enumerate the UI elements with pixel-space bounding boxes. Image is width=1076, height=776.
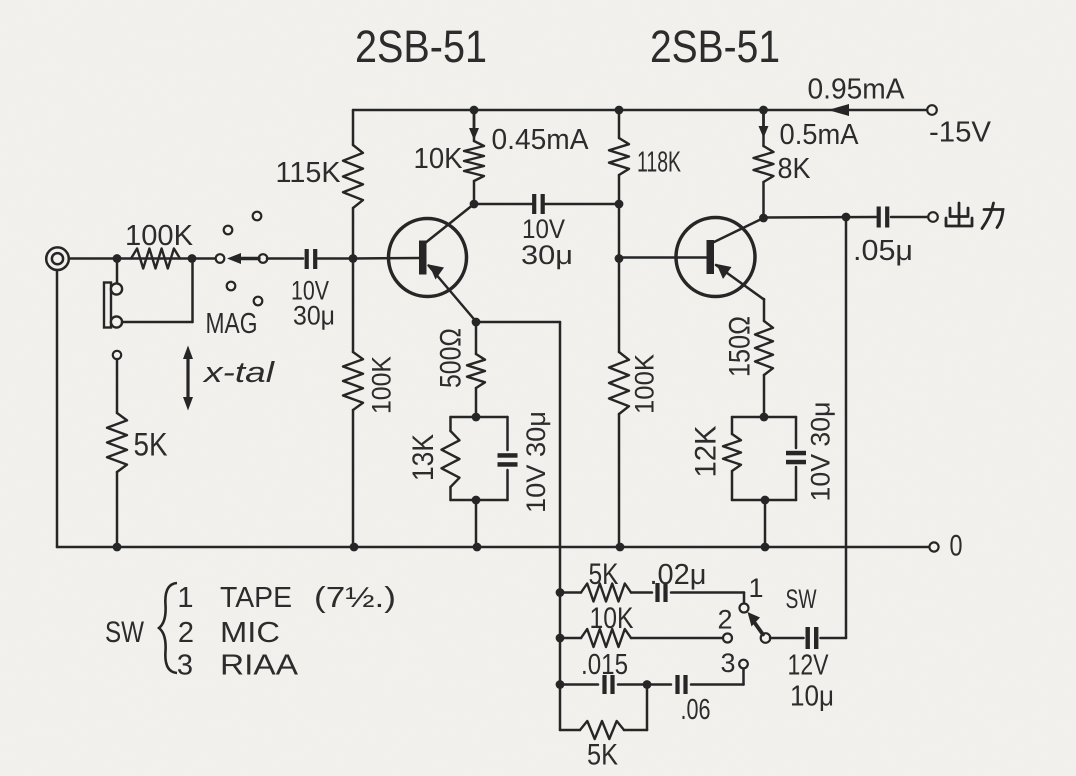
junction Q1 collector node bbox=[470, 200, 479, 209]
junction Q2 collector node bbox=[759, 214, 768, 223]
label transistor type 2SB-51 (stage 2) bbox=[650, 21, 780, 72]
capacitor 12V 10μ bbox=[806, 627, 819, 649]
junction ground rail / 100K stage 1 bbox=[350, 543, 359, 552]
label legend row 3 RIAA bbox=[177, 650, 299, 682]
wire top rail to 118K bbox=[618, 110, 621, 138]
junction ground rail / RC2 bbox=[761, 543, 770, 552]
svg-text:TAPE: TAPE bbox=[220, 582, 292, 614]
svg-text:SW: SW bbox=[786, 584, 817, 614]
wire top rail to 8K bbox=[762, 110, 765, 146]
wire output capacitor to terminal bbox=[891, 216, 928, 219]
capacitor output .05μ bbox=[877, 207, 890, 228]
svg-text:3: 3 bbox=[720, 648, 735, 678]
junction ground rail / 5K bbox=[113, 543, 122, 552]
svg-text:0: 0 bbox=[950, 530, 963, 563]
label 0.5mA bbox=[780, 119, 860, 151]
svg-text:-15V: -15V bbox=[929, 117, 992, 149]
svg-text:2SB-51: 2SB-51 bbox=[650, 21, 780, 72]
label .015 bbox=[581, 649, 628, 681]
label 100K (stage 2 bias) bbox=[629, 354, 659, 414]
wire top rail to 10K bbox=[473, 110, 476, 141]
svg-text:(7½.): (7½.) bbox=[314, 582, 396, 614]
label 5K (row 1) bbox=[589, 558, 619, 591]
junction RC2 top node bbox=[760, 413, 769, 422]
wire RC1 bottom edge bbox=[451, 499, 508, 502]
svg-text:100K: 100K bbox=[629, 354, 659, 414]
resistor 5K (bypass) bbox=[580, 721, 624, 739]
svg-text:0.5mA: 0.5mA bbox=[780, 119, 860, 151]
svg-text:5K: 5K bbox=[587, 739, 618, 772]
svg-text:.015: .015 bbox=[581, 649, 628, 681]
wire RC2 top edge bbox=[732, 416, 796, 419]
junction row 3 middle bbox=[643, 680, 652, 689]
wire feedback vertical line bbox=[559, 322, 562, 730]
switch contact (selector, on line left) bbox=[216, 254, 225, 263]
resistor 150Ω bbox=[755, 321, 773, 375]
resistor 12K bbox=[723, 417, 741, 500]
wire 100K to ground rail bbox=[618, 414, 621, 547]
label legend row 2 MIC bbox=[178, 617, 280, 649]
svg-text:100K: 100K bbox=[125, 220, 194, 252]
current arrow 0.5mA bbox=[759, 112, 769, 138]
label 12K bbox=[690, 426, 723, 478]
wire 100K stage 1 to ground rail bbox=[352, 410, 355, 547]
label 100K (input) bbox=[125, 220, 194, 252]
switch contact (selector, upper near) bbox=[224, 226, 233, 235]
capacitor .02μ bbox=[655, 583, 667, 602]
wire input capacitor to Q1 base bbox=[318, 257, 353, 260]
label x-tal bbox=[201, 357, 276, 389]
junction Q2 base node bbox=[615, 254, 624, 263]
resistor 8K bbox=[754, 146, 774, 182]
wire row1 middle bbox=[631, 591, 652, 594]
svg-text:118K: 118K bbox=[637, 147, 681, 179]
switch contact 2 bbox=[723, 634, 732, 643]
wire Q1 base bbox=[353, 257, 420, 260]
label 100K (stage 1 bias) bbox=[366, 356, 396, 414]
svg-text:30μ: 30μ bbox=[521, 240, 573, 270]
wire RC1 to ground rail bbox=[475, 500, 478, 547]
wire 150Ω to RC2 bbox=[763, 375, 766, 417]
wire 5K to ground rail bbox=[116, 472, 119, 547]
svg-text:1: 1 bbox=[177, 582, 193, 614]
junction output node bbox=[842, 213, 851, 222]
label 10K (row 2) bbox=[590, 602, 634, 635]
wire bypass bottom right bbox=[624, 729, 647, 732]
label 10V 30μ (RC1 cap) bbox=[521, 411, 551, 513]
resistor 5K (row 1) bbox=[581, 584, 631, 602]
capacitor interstage coupling 10V 30u bbox=[532, 194, 545, 214]
wire Q2 base bbox=[619, 256, 708, 259]
label 13K bbox=[407, 434, 440, 481]
wire cartridge to 100K right bbox=[122, 259, 193, 323]
label 5K (bypass) bbox=[587, 739, 618, 772]
label 12V bbox=[788, 650, 830, 682]
resistor 5K (input load) bbox=[107, 413, 127, 472]
svg-text:1: 1 bbox=[748, 573, 763, 603]
current arrow 0.95mA on supply rail bbox=[828, 104, 849, 116]
junction Q1 emitter node bbox=[472, 318, 481, 327]
wire coupling capacitor to 118K tap bbox=[545, 203, 619, 206]
label 出力 (output) bbox=[946, 203, 1003, 229]
svg-text:RIAA: RIAA bbox=[220, 650, 299, 682]
capacitor input coupling 10V 30μ bbox=[305, 249, 318, 269]
svg-text:2SB-51: 2SB-51 bbox=[355, 21, 487, 72]
svg-text:5K: 5K bbox=[134, 427, 168, 463]
svg-text:2: 2 bbox=[178, 617, 194, 649]
label -15V bbox=[929, 117, 992, 149]
label 115K bbox=[276, 157, 342, 189]
resistor 10K (row 2) bbox=[581, 629, 631, 647]
junction ground rail / RC1 bbox=[473, 543, 482, 552]
svg-text:MIC: MIC bbox=[220, 617, 280, 649]
label SW (legend) bbox=[105, 616, 145, 649]
switch contact x-tal (5K branch) bbox=[113, 351, 121, 359]
resistor 115K bbox=[343, 145, 363, 208]
wire row1 to contact 1 bbox=[671, 593, 744, 604]
capacitor .06 bbox=[675, 675, 687, 694]
label 118K bbox=[637, 147, 681, 179]
wire Q1 base node to 100K bbox=[352, 259, 355, 353]
arrow MAG/x-tal toggle bbox=[183, 346, 193, 411]
junction RC1 top node bbox=[472, 413, 481, 422]
svg-text:8K: 8K bbox=[778, 153, 812, 185]
label .06 bbox=[681, 694, 711, 726]
transistor Q1 2SB-51 bbox=[389, 204, 477, 322]
wire Q1 collector to coupling capacitor bbox=[474, 203, 532, 206]
junction RC1 bottom node bbox=[472, 496, 481, 505]
label 30μ (input cap) bbox=[293, 300, 335, 330]
junction RC2 bottom node bbox=[761, 496, 770, 505]
wire row2 to contact 2 bbox=[631, 637, 723, 640]
wire tap node to Q2 base node bbox=[618, 204, 621, 259]
wire 118K to tap node bbox=[618, 175, 621, 204]
label 0 bbox=[950, 530, 963, 563]
pickup cartridge MAG symbol bbox=[104, 283, 122, 328]
wire 115K to Q1 base node bbox=[352, 208, 355, 259]
svg-text:.02μ: .02μ bbox=[650, 559, 707, 591]
wire .015 to row3 junction bbox=[618, 683, 647, 686]
junction feedback / row 2 bbox=[556, 634, 565, 643]
svg-text:10V 30μ: 10V 30μ bbox=[805, 402, 835, 502]
svg-text:500Ω: 500Ω bbox=[435, 328, 468, 388]
junction Q1 base node bbox=[349, 254, 358, 263]
svg-text:10μ: 10μ bbox=[790, 681, 834, 713]
wire 10K to Q1 collector node bbox=[473, 181, 476, 204]
wire row2 left bbox=[560, 637, 581, 640]
terminal output bbox=[928, 212, 938, 222]
wire top rail to 115K bbox=[352, 110, 355, 145]
wire selector to input capacitor bbox=[267, 257, 303, 260]
junction top rail / 8K bbox=[759, 106, 768, 115]
terminal input jack bbox=[46, 247, 69, 270]
junction ground rail / 100K stage 2 bbox=[616, 543, 625, 552]
svg-text:2: 2 bbox=[717, 605, 732, 635]
label transistor type 2SB-51 (stage 1) bbox=[355, 21, 487, 72]
switch contact (selector, on line right) bbox=[259, 254, 268, 263]
wire output node down to SW capacitor bbox=[845, 217, 848, 638]
resistor 100K (stage 1 bias) bbox=[343, 352, 363, 410]
label .02μ bbox=[650, 559, 707, 591]
capacitor 13K bypass 10V 30μ bbox=[498, 417, 518, 500]
resistor 100K (input) bbox=[131, 249, 180, 269]
svg-text:.05μ: .05μ bbox=[853, 235, 913, 267]
label 0.45mA bbox=[492, 124, 590, 156]
switch contact (selector, lower near) bbox=[227, 282, 236, 291]
resistor 10K bbox=[464, 141, 484, 181]
wire Q2 emitter bend bbox=[763, 299, 766, 321]
label legend row 1 TAPE bbox=[177, 582, 396, 614]
label 30μ (interstage cap) bbox=[521, 240, 573, 270]
wire 500Ω to RC network bbox=[475, 388, 478, 417]
label MAG bbox=[206, 308, 258, 340]
wire row1 left bbox=[560, 591, 581, 594]
label 8K bbox=[778, 153, 812, 185]
svg-text:10K: 10K bbox=[590, 602, 634, 635]
wire bypass bottom left bbox=[560, 729, 580, 732]
label 10K bbox=[414, 143, 464, 175]
wire RC2 bottom edge bbox=[732, 499, 796, 502]
wire contact to 5K bbox=[116, 359, 119, 413]
resistor 13K bbox=[442, 417, 460, 500]
svg-text:5K: 5K bbox=[589, 558, 619, 591]
svg-text:150Ω: 150Ω bbox=[724, 316, 757, 377]
switch contact 3 bbox=[739, 660, 748, 669]
current arrow 0.45mA bbox=[469, 113, 479, 140]
label 150Ω bbox=[724, 316, 757, 377]
label .05μ bbox=[853, 235, 913, 267]
terminal 0 (ground) bbox=[929, 542, 938, 551]
wire Q1 emitter node to 500Ω bbox=[475, 322, 478, 354]
junction 118K tap node bbox=[615, 200, 624, 209]
svg-text:13K: 13K bbox=[407, 434, 440, 481]
label 2 (contact) bbox=[717, 605, 732, 635]
wire RC2 to ground rail bbox=[764, 500, 767, 547]
wire top supply rail bbox=[353, 109, 929, 112]
resistor 500Ω bbox=[467, 354, 485, 388]
svg-text:.06: .06 bbox=[681, 694, 711, 726]
terminal -15V bbox=[927, 105, 937, 115]
selector wiper arrow bbox=[227, 253, 259, 264]
switch contact (selector, lower far) bbox=[254, 297, 263, 306]
wire Q1 emitter to feedback drop bbox=[476, 321, 560, 324]
svg-text:30μ: 30μ bbox=[293, 300, 335, 330]
label 10V (input cap) bbox=[291, 275, 329, 305]
label 500Ω bbox=[435, 328, 468, 388]
junction 100K input right node bbox=[188, 254, 197, 263]
junction feedback / row 3 bbox=[556, 680, 565, 689]
resistor 100K (stage 2 bias) bbox=[609, 352, 629, 414]
wire input jack down bbox=[56, 270, 59, 547]
svg-text:SW: SW bbox=[105, 616, 145, 649]
wire pole to 12V capacitor bbox=[770, 637, 804, 640]
label 10μ bbox=[790, 681, 834, 713]
wire input node to cartridge bbox=[116, 263, 119, 284]
junction feedback / row 1 bbox=[556, 588, 565, 597]
switch contact 1 bbox=[740, 604, 749, 613]
wire row3 junction to .06 bbox=[647, 683, 671, 686]
wire Q2 base node to 100K bbox=[618, 259, 621, 353]
capacitor 12K bypass 10V 30μ bbox=[786, 417, 806, 500]
wire RC1 top edge bbox=[451, 416, 508, 419]
wire 8K to Q2 collector node bbox=[762, 182, 765, 218]
svg-text:MAG: MAG bbox=[206, 308, 258, 340]
wire Q2 collector to output capacitor bbox=[764, 216, 877, 219]
svg-text:10V 30μ: 10V 30μ bbox=[521, 411, 551, 513]
resistor 118K bbox=[609, 138, 629, 175]
label 0.95mA bbox=[808, 74, 906, 106]
svg-text:100K: 100K bbox=[366, 356, 396, 414]
wire ground rail bbox=[57, 546, 929, 549]
switch contact (selector, upper far) bbox=[253, 212, 262, 221]
svg-text:115K: 115K bbox=[276, 157, 342, 189]
capacitor .015 bbox=[602, 675, 614, 694]
brace of SW legend bbox=[159, 583, 177, 673]
transistor Q2 2SB-51 bbox=[676, 218, 764, 300]
label 5K (input load) bbox=[134, 427, 168, 463]
label SW (switch) bbox=[786, 584, 817, 614]
junction input node bbox=[113, 254, 122, 263]
label 3 (contact) bbox=[720, 648, 735, 678]
switch pole SW bbox=[761, 633, 771, 643]
wire row3 left bbox=[560, 683, 598, 686]
junction top rail / 118K bbox=[615, 106, 624, 115]
wire 12V capacitor to output line bbox=[821, 637, 847, 640]
svg-text:12K: 12K bbox=[690, 426, 723, 478]
svg-text:10K: 10K bbox=[414, 143, 464, 175]
switch wiper arm bbox=[748, 612, 764, 635]
svg-text:3: 3 bbox=[177, 650, 193, 682]
junction top rail / 10K bbox=[470, 106, 479, 115]
wire bypass right riser bbox=[646, 685, 649, 731]
label 10V 30μ (RC2 cap) bbox=[805, 402, 835, 502]
label 10V (interstage cap) bbox=[522, 214, 565, 244]
svg-text:x-tal: x-tal bbox=[201, 357, 276, 389]
wire .06 to contact 3 bbox=[691, 669, 744, 685]
wire input jack to selector bbox=[69, 257, 216, 260]
svg-text:0.45mA: 0.45mA bbox=[492, 124, 590, 156]
svg-text:0.95mA: 0.95mA bbox=[808, 74, 906, 106]
label 1 (contact) bbox=[748, 573, 763, 603]
svg-text:12V: 12V bbox=[788, 650, 830, 682]
